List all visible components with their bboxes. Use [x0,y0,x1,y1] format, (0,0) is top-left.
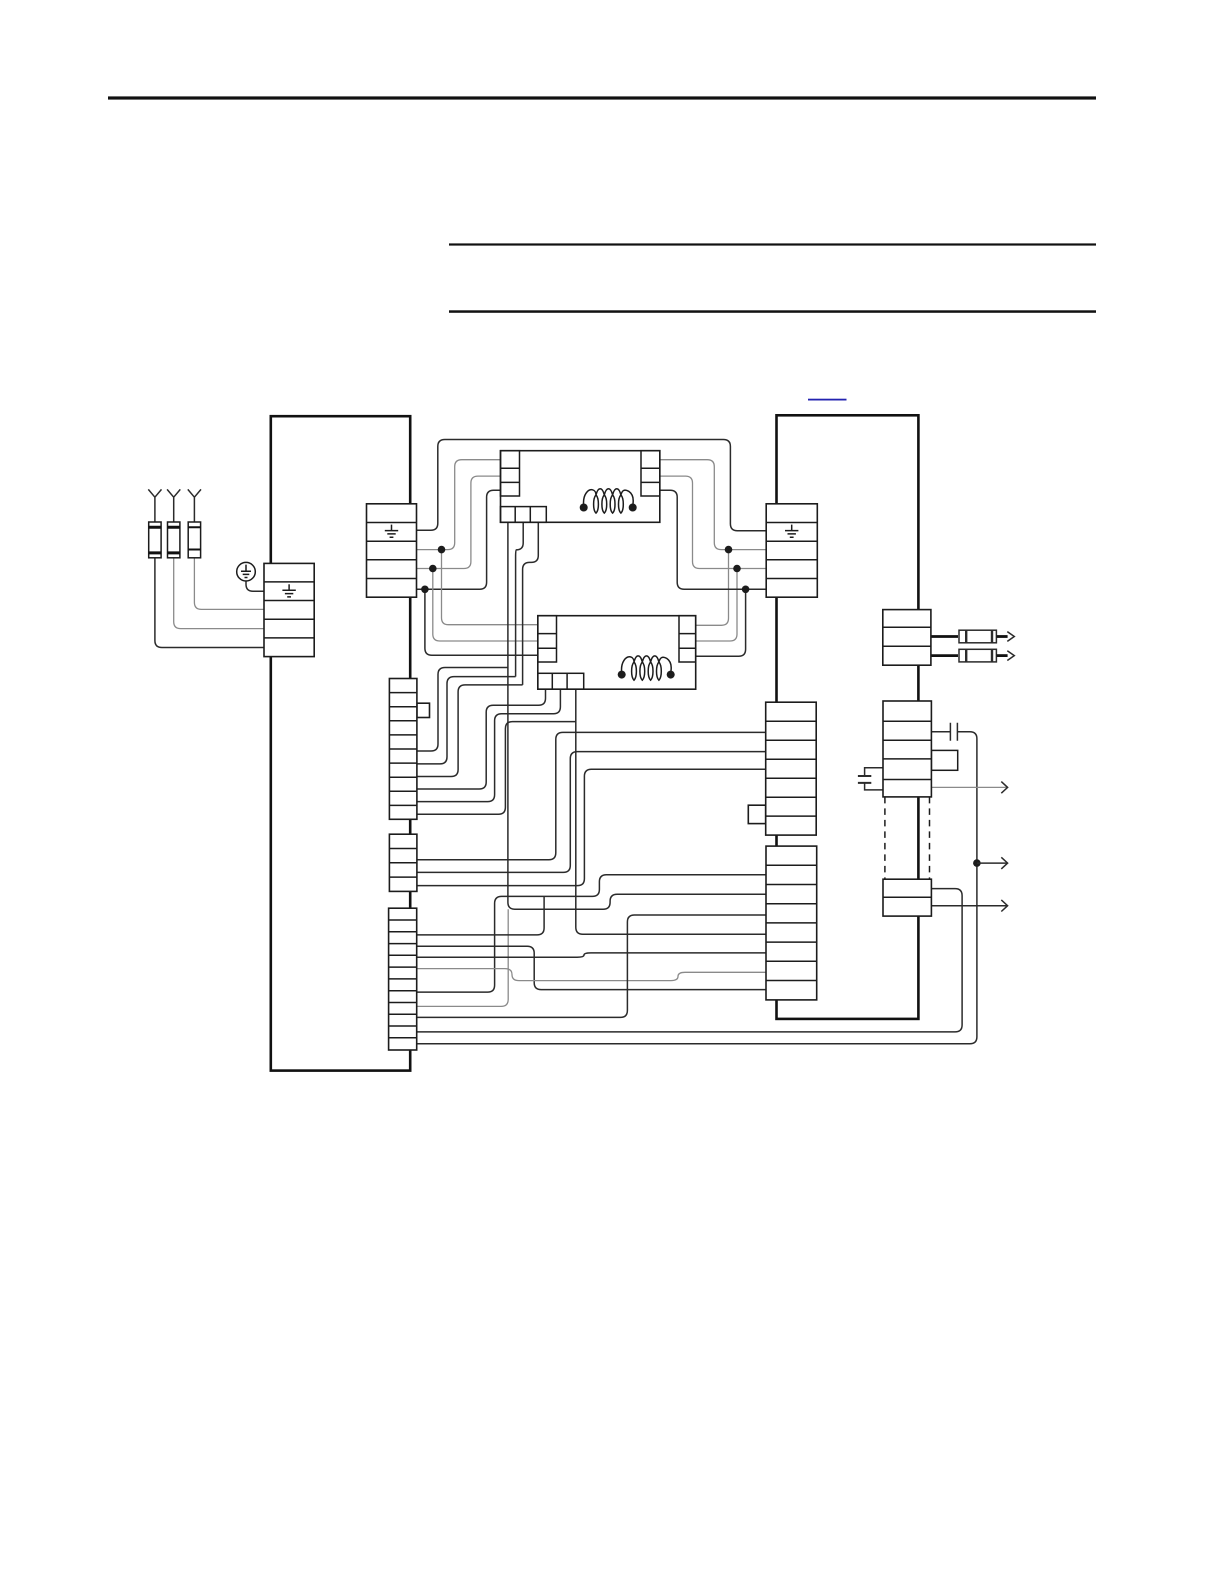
wire node N4 drop to filter2 right pin1 [696,550,729,626]
fuse F3 input symbol [188,489,201,557]
node N7 junction dot [973,859,981,867]
wire capacitor C1 left lead to TB-E row2 [931,731,950,733]
node dot C row4 [733,565,741,573]
filter box1 bottom pin cells [501,507,547,523]
wire TB-A row5 to filter1 left pin3 [417,490,501,589]
terminal block TB-E body [883,701,931,797]
wire TB-F row11 staircase to filter2 bottom pin3 tee [417,722,576,815]
wire TB-D row3 to fuse F5 and arrow [931,654,958,657]
enclosure box left (line-side cabinet outline) [271,416,410,1070]
filter box1 left pin cells [501,451,520,496]
ground symbol in TB-A row2 [385,525,398,538]
inductor L1 in filter box1 [580,489,637,513]
wire TB-K row12 to capacitor net and node N7 [417,732,977,1044]
top rule [108,96,1096,99]
filter box2 bottom pin cells [538,673,584,689]
inductor L2 in filter box2 [618,656,675,680]
wire TB-G row4 riser to TB-H row4 [417,769,766,885]
terminal block TB-C body [766,504,817,597]
wire TB-J row2 output arrow [931,905,1007,907]
terminal block TB-G body [389,834,417,891]
wire fuse F3 lead to TB-B row3 [194,558,264,610]
wire TB-A row4 to filter1 left pin2 [417,476,501,568]
wire node N5 drop to filter2 right pin2 [696,569,737,642]
wire fuse F2 lead to TB-B row4 [174,558,265,629]
heading rule upper [449,243,1096,245]
EMC filter box1 body [501,451,660,523]
terminal block TB-A body [367,504,417,597]
wire filter1 bottom pin3 jog vertical [523,522,539,685]
terminal block TB-H body [766,702,817,835]
filter box1 right pin cells [641,451,660,496]
jumper rect right of TB-E [931,750,957,770]
fuse F2 input symbol [167,489,180,557]
wire filter1 bottom pin2 jog vertical [516,522,524,676]
wire node N6 drop to filter2 right pin3 [696,589,746,656]
wire TB-K row6 riser jog to TB-I row2 [417,875,766,992]
terminal block TB-I body [766,846,817,1000]
terminal block TB-J body [883,879,931,916]
wire TB-A row3 to filter1 left pin1 [417,460,501,550]
fuse F1 input symbol [148,489,161,557]
wire fuse F5 to arrow [997,654,1008,657]
wire TB-F row8 staircase to vertical 522 tee [417,685,523,777]
arrowhead output top2 [1007,651,1014,661]
fuse F5 body [959,649,996,662]
ground symbol in TB-B row2 [282,584,295,597]
wire TB-D row2 to fuse F4 and arrow [931,635,958,638]
wire fuse F4 to arrow [997,635,1008,638]
wire filter2 bottom pin3 vertical to TB-I row5 [576,689,766,934]
wire node N7 output arrow [977,862,1007,864]
EMC filter box2 body [538,616,696,690]
capacitor C1 plates [950,723,957,741]
wire TB-K row11 to TB-J row1 [417,889,962,1032]
wire TB-F row6 staircase to vertical 508 tee [417,668,508,752]
wire fuse F1 lead to TB-B row5 [155,558,264,648]
tab on TB-F [417,703,430,717]
arrowhead output upper-gray [1001,782,1007,794]
dashed capacitor bank outline [885,797,930,879]
wire TB-K row4 drop to TB-I row8 [417,946,766,989]
filter box2 right pin cells [679,616,696,662]
ground symbol in TB-C row2 [785,525,798,538]
wire TB-E row5 output arrow (gray) [931,786,1007,788]
node dot C row5 [742,586,750,594]
arrowhead output mid [1001,857,1007,869]
terminal block TB-D body [883,610,931,666]
node dot A row5 [421,586,429,594]
terminal block TB-K body [389,908,417,1050]
wire TB-K gray row to vertical 508 tee [417,909,509,1006]
wire filter1 right pin2 to TB-C row4 [659,476,766,568]
heading rule lower [449,310,1096,313]
tab on TB-H [748,805,765,823]
terminal block TB-F body [389,679,417,820]
terminal block TB-B body [264,563,314,656]
wire TB-F row10 staircase to filter2 bottom pin2 [417,689,561,801]
wire TB-K row3 riser to TB-H row2b [417,896,544,935]
hyperlink underline [808,399,847,401]
wire ground bus TB-A row2 to TB-C row2 (top bus) [417,440,767,531]
arrowhead output top1 [1007,632,1014,642]
wire filter1 right pin1 to TB-C row3 [659,460,766,550]
filter box2 left pin cells [538,616,557,662]
wire TB-G row2 riser to TB-H row2a [417,732,766,859]
wire node N2 drop to filter2 left pin2 [433,569,538,642]
wire node N1 drop to filter2 left pin1 [442,550,538,625]
wire filter1 right pin3 to TB-C row5 [659,490,766,589]
node dot A row4 [429,565,437,573]
capacitor C2 polarized left of TB-E [858,768,883,790]
PE ground circle [237,562,256,581]
wire TB-K row5 jog to TB-I row6 [417,953,766,957]
wire TB-K row9 riser to TB-I row4 [417,915,766,1017]
wire TB-K row jog down and up to TB-I row7 [417,969,766,981]
wire node N3 drop to filter2 left pin3 [425,589,538,655]
node dot C row3 [725,546,733,554]
node dot A row3 [438,546,446,554]
arrowhead output lower [1001,900,1007,912]
enclosure box right (drive cabinet outline) [777,415,919,1019]
fuse F4 body [959,630,996,643]
wire filter1 bottom pin1 long vertical to TB-I row3 [508,522,766,909]
wire TB-G row3 riser to TB-H row3 [417,752,766,873]
wire PE circle to TB-B row2 [246,581,264,592]
wire TB-F row9 staircase to filter2 bottom pin1 [417,689,546,789]
wire TB-F row7 staircase to vertical 515 tee [417,677,516,764]
